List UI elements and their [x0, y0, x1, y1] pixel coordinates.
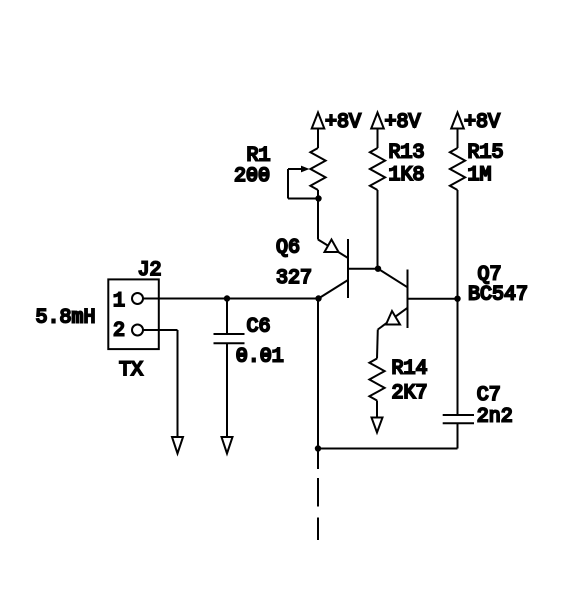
power symbol +8V rail 3	[451, 113, 464, 149]
svg-text:+8V: +8V	[464, 111, 500, 134]
junction dot C6 top	[224, 295, 230, 301]
wire pin 1 to Q6 collector node	[143, 298, 319, 300]
wire Q7 emitter to R14	[376, 330, 379, 359]
resistor R15	[450, 148, 465, 190]
svg-text:R13: R13	[389, 142, 425, 165]
wire C7 bottom	[457, 423, 459, 448]
svg-text:2K7: 2K7	[392, 382, 428, 405]
svg-text:+8V: +8V	[325, 111, 361, 134]
capacitor C7	[443, 415, 474, 423]
ground arrow (pin 2)	[172, 437, 183, 454]
wire stub below bottom rail	[317, 449, 319, 470]
R1 wiper arrow	[288, 166, 319, 199]
resistor R13	[370, 148, 385, 190]
pin 2 circle	[132, 325, 143, 336]
svg-text:5.8mH: 5.8mH	[36, 307, 96, 330]
svg-text:C6: C6	[247, 316, 271, 339]
wire bottom rail	[318, 448, 458, 450]
svg-text:J2: J2	[138, 259, 162, 282]
capacitor C6	[214, 334, 245, 343]
svg-text:200: 200	[234, 165, 270, 188]
svg-text:0.01: 0.01	[236, 346, 284, 369]
power symbol +8V rail 2	[371, 113, 384, 149]
resistor R14	[369, 359, 384, 401]
svg-text:+8V: +8V	[385, 111, 421, 134]
ground arrow (C6)	[222, 437, 233, 454]
transistor Q7	[378, 269, 458, 330]
wire Q6 node down to bottom rail	[317, 299, 319, 449]
wire pin 2	[143, 330, 178, 437]
svg-text:1: 1	[113, 290, 125, 313]
wire R1 bottom to Q6 emitter	[317, 190, 319, 240]
junction dot bottom rail	[315, 445, 321, 451]
svg-text:1M: 1M	[468, 164, 492, 187]
svg-text:Q6: Q6	[276, 237, 300, 260]
junction dot R13/Q6 base/Q7 collector	[375, 266, 381, 272]
junction dot Q7 base / R15 rail	[454, 296, 460, 302]
resistor R1 (trimmer body)	[310, 148, 325, 190]
pin 1 circle	[132, 293, 143, 304]
junction dot R1 wiper/bottom	[315, 195, 321, 201]
svg-text:R14: R14	[392, 358, 428, 381]
junction dot Q6 collector node	[315, 295, 321, 301]
svg-text:2n2: 2n2	[477, 406, 513, 429]
wire R15 bottom to C7	[457, 190, 459, 415]
svg-text:C7: C7	[477, 384, 501, 407]
dashed net line	[317, 478, 319, 540]
connector J2 body	[108, 279, 159, 349]
wire C6 top	[226, 299, 228, 335]
svg-text:2: 2	[113, 320, 125, 343]
svg-text:1K8: 1K8	[389, 164, 425, 187]
wire R13 bottom to Q7 collector node	[377, 190, 379, 269]
power symbol +8V rail 1	[312, 113, 325, 149]
svg-text:327: 327	[276, 267, 312, 290]
wire C6 bottom	[226, 343, 228, 437]
svg-text:BC547: BC547	[468, 284, 528, 307]
svg-text:R15: R15	[468, 142, 504, 165]
wire R14 to ground	[376, 401, 378, 418]
transistor Q6	[318, 239, 378, 299]
ground arrow (R14)	[372, 418, 383, 433]
svg-text:TX: TX	[119, 359, 143, 382]
